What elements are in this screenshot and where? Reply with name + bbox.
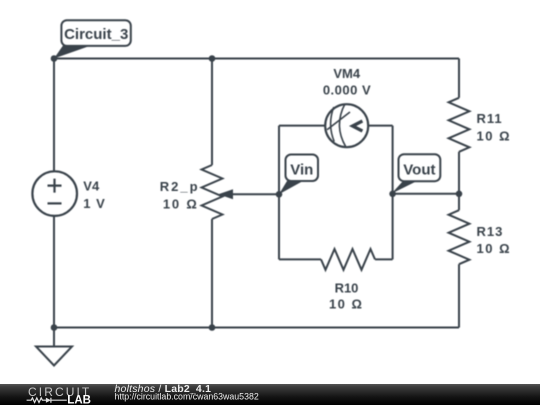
VM4 meter needle bbox=[327, 112, 350, 130]
logo schematic glyph bbox=[27, 398, 67, 403]
resistor R10 zigzag (horizontal) bbox=[321, 249, 375, 270]
net flag Circuit_3 box bbox=[61, 20, 130, 46]
potentiometer R2_p zigzag bbox=[202, 165, 223, 219]
voltmeter VM4 circle bbox=[325, 104, 368, 147]
VM4 meter scale arc 1 bbox=[331, 107, 335, 142]
wire bridge top-left to meter bbox=[279, 125, 325, 127]
junction node R2_p bottom bbox=[209, 324, 216, 331]
wire R13 bottom stub bbox=[458, 264, 460, 327]
svg-text:10 Ω: 10 Ω bbox=[477, 241, 512, 256]
wire top rail bbox=[54, 58, 459, 60]
ground symbol bbox=[36, 328, 72, 366]
V4 plus sign bbox=[48, 179, 62, 193]
wire bottom rail bbox=[54, 327, 459, 329]
svg-text:1 V: 1 V bbox=[83, 196, 106, 211]
wire R11 to mid node bbox=[458, 152, 460, 210]
svg-text:0.000 V: 0.000 V bbox=[323, 82, 371, 97]
wire bridge bottom-left to R10 bbox=[279, 258, 321, 260]
wire left branch upper (node to V4 top) bbox=[53, 59, 55, 172]
svg-text:R13: R13 bbox=[477, 224, 504, 239]
wire R2_p bottom stub bbox=[211, 219, 213, 328]
svg-text:10 Ω: 10 Ω bbox=[329, 297, 364, 312]
net flag Vin box bbox=[286, 155, 319, 182]
wire Vout node to right branch bbox=[393, 193, 459, 195]
junction node right mid bbox=[456, 191, 463, 198]
footer background bbox=[0, 384, 540, 405]
wire Vout vertical bbox=[392, 126, 394, 260]
net flag Vout tail bbox=[392, 181, 418, 194]
net flag Vin tail bbox=[279, 181, 303, 194]
footer bar bbox=[0, 384, 540, 405]
wire R10 to bridge bottom-right bbox=[375, 258, 393, 260]
svg-text:V4: V4 bbox=[83, 178, 100, 193]
junction node R2_p top bbox=[209, 55, 216, 62]
potentiometer wiper arrow bbox=[218, 189, 233, 199]
logo diode triangle bbox=[46, 398, 51, 403]
svg-text:R2_p: R2_p bbox=[160, 179, 200, 194]
svg-text:Circuit_3: Circuit_3 bbox=[64, 26, 128, 43]
voltage source V4 circle bbox=[32, 171, 77, 216]
resistor R11 zigzag bbox=[449, 98, 470, 152]
VM4 V mark (rotated) bbox=[353, 121, 363, 131]
svg-text:http://circuitlab.com/cwan63wa: http://circuitlab.com/cwan63wau5382 bbox=[115, 392, 259, 402]
svg-text:R10: R10 bbox=[335, 280, 359, 295]
net flag Circuit_3 tail bbox=[54, 46, 91, 59]
wire left branch lower (V4 bottom to bottom rail) bbox=[53, 216, 55, 328]
svg-text:LAB: LAB bbox=[67, 394, 91, 405]
resistor R13 zigzag bbox=[449, 210, 470, 264]
V4 minus sign bbox=[48, 202, 62, 204]
svg-text:10 Ω: 10 Ω bbox=[163, 197, 199, 212]
wire right branch top stub (to R11) bbox=[458, 59, 460, 98]
wire Vin vertical bbox=[278, 126, 280, 260]
junction node Vout bbox=[389, 191, 396, 198]
junction node top-left bbox=[51, 55, 58, 62]
svg-text:10 Ω: 10 Ω bbox=[477, 128, 512, 143]
svg-text:Vout: Vout bbox=[403, 161, 435, 178]
svg-text:VM4: VM4 bbox=[333, 66, 361, 81]
svg-text:Vin: Vin bbox=[290, 162, 313, 179]
wire meter to bridge top-right bbox=[368, 125, 392, 127]
junction node Vin bbox=[276, 191, 283, 198]
junction node bottom-left ground bbox=[51, 324, 58, 331]
wire R2_p top stub bbox=[211, 59, 213, 166]
svg-text:R11: R11 bbox=[477, 111, 503, 126]
wire wiper to Vin node bbox=[224, 193, 279, 195]
VM4 meter scale arc 2 bbox=[339, 104, 345, 147]
net flag Vout box bbox=[399, 154, 441, 181]
